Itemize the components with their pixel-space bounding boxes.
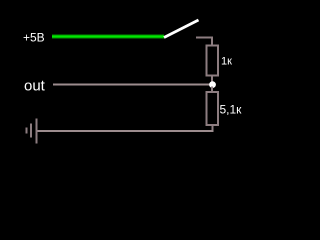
- ground symbol: [26, 119, 38, 144]
- svg-text:5,1к: 5,1к: [220, 103, 243, 117]
- wire (R2 bottom to ground rail): [212, 125, 214, 132]
- wire (node to R2 top): [211, 87, 213, 93]
- resistor R2: [207, 92, 219, 125]
- switch SW1 blade (open): [164, 20, 199, 38]
- svg-text:out: out: [24, 78, 46, 95]
- svg-text:+5В: +5В: [23, 31, 45, 45]
- wire (green +5V supply wire): [52, 35, 164, 39]
- svg-text:1к: 1к: [221, 56, 232, 68]
- resistor R1: [207, 45, 219, 75]
- node junction dot: [209, 81, 216, 88]
- wire (out): [53, 84, 210, 86]
- wire (R1 bottom to node): [211, 76, 213, 84]
- wire (ground rail): [37, 130, 214, 132]
- wire (switch contact to R1 top): [196, 38, 212, 46]
